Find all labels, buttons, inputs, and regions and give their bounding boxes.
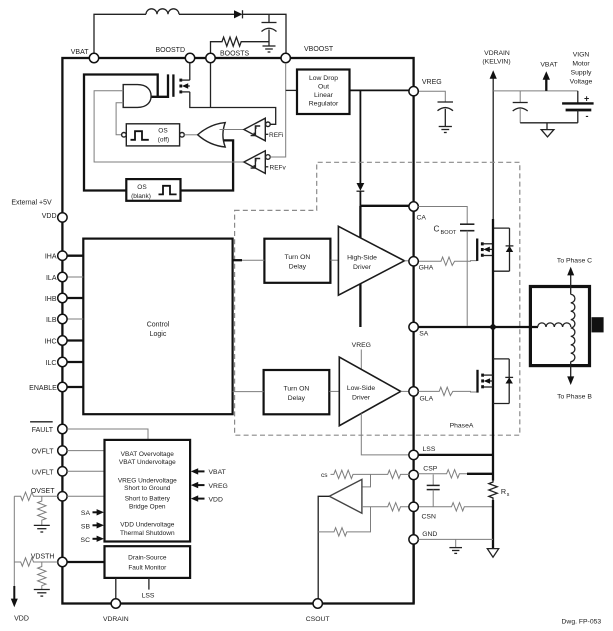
regulator LDO box (297, 70, 350, 115)
resistor R3 feedback (318, 507, 370, 536)
svg-text:Dwg. FP-053: Dwg. FP-053 (562, 619, 602, 626)
svg-text:External +5V: External +5V (11, 200, 52, 207)
svg-text:IHB: IHB (45, 296, 57, 303)
driver U5 high-side (338, 226, 404, 295)
arrow to phase B (570, 362, 572, 377)
ground supply (open triangle) (546, 123, 548, 130)
wire supply bottom (520, 122, 578, 124)
svg-text:VBAT Undervoltage: VBAT Undervoltage (119, 459, 176, 466)
wire VBAT riser (94, 14, 146, 53)
wire Rs to ground (492, 500, 494, 549)
node VDRAIN pin (111, 599, 120, 608)
svg-text:To Phase C: To Phase C (557, 258, 592, 265)
svg-text:Turn ON: Turn ON (283, 386, 309, 393)
svg-text:+: + (584, 94, 589, 104)
delay U3 box (264, 239, 330, 283)
diode D1 top (234, 10, 243, 18)
svg-text:Out: Out (318, 84, 329, 91)
wire VREG branch down (359, 90, 361, 183)
motor coil vertical (571, 294, 575, 361)
delay U4 box (264, 370, 330, 414)
node GND pin (409, 535, 418, 544)
wire supply rail top right (493, 90, 578, 92)
node UVFLT pin (58, 467, 67, 476)
wire FAULT to monitor (67, 429, 148, 440)
svg-text:OVSET: OVSET (31, 488, 55, 495)
svg-text:CSP: CSP (423, 466, 437, 473)
svg-text:VDRAIN: VDRAIN (484, 50, 510, 57)
svg-text:Logic: Logic (150, 331, 167, 338)
OR gate U2 (pointing left) (198, 123, 226, 147)
node ILA pin (58, 272, 67, 281)
svg-text:R: R (501, 487, 506, 496)
node GLA pin (409, 387, 418, 396)
svg-text:High-Side: High-Side (347, 255, 377, 262)
svg-text:LSS: LSS (142, 593, 155, 600)
svg-text:s: s (507, 492, 510, 498)
transistor Q2 high-side (476, 239, 478, 261)
svg-text:LSS: LSS (423, 446, 436, 453)
wire VBOOST to LDO (286, 89, 297, 91)
svg-text:REFv: REFv (270, 164, 287, 171)
svg-text:VDD Undervoltage: VDD Undervoltage (120, 522, 175, 529)
resistor Rs sense (489, 481, 497, 501)
wire Q1 source to BOOSTS net (190, 92, 276, 124)
transistor Q1 gate bar (172, 74, 174, 96)
node VBOOST pin (281, 53, 290, 62)
svg-text:VBAT: VBAT (209, 469, 226, 476)
wire input stubs (67, 255, 83, 257)
wire BOOSTS to REFi input bubble (266, 122, 271, 127)
wire GHA resistor to gate (418, 257, 477, 265)
IC package outline (62, 58, 413, 604)
svg-text:cs: cs (321, 472, 328, 479)
node IHB pin (58, 293, 67, 302)
wire GLA resistor to gate (418, 387, 477, 395)
svg-text:OVFLT: OVFLT (31, 449, 54, 456)
resistor R5 csp right (418, 470, 467, 478)
svg-text:Drain-Source: Drain-Source (128, 555, 167, 562)
svg-text:VBAT: VBAT (71, 49, 89, 56)
resistor R2 csp (371, 470, 410, 478)
node VBAT pin (89, 53, 98, 62)
svg-text:CSOUT: CSOUT (306, 616, 330, 623)
svg-text:VDD: VDD (42, 213, 57, 220)
svg-text:Short to Battery: Short to Battery (125, 496, 171, 503)
resistor R4 csn (362, 503, 409, 511)
svg-text:(KELVIN): (KELVIN) (482, 59, 510, 66)
ground boost cap (263, 45, 276, 47)
ground bridge (open triangle) (487, 549, 498, 558)
wire gate drive loop thick (84, 75, 158, 191)
wire op-amp out to CSOUT (318, 496, 329, 599)
svg-text:UVFLT: UVFLT (32, 469, 54, 476)
op-amp U7 sense (329, 479, 362, 513)
svg-text:Short to Ground: Short to Ground (124, 485, 171, 492)
svg-text:Motor: Motor (572, 61, 590, 68)
fault monitor box upper (105, 440, 191, 542)
wire diode to VBOOST (243, 14, 287, 53)
svg-text:Bridge Open: Bridge Open (129, 503, 166, 510)
wire delay U3 to driver (330, 259, 338, 261)
svg-text:GND: GND (422, 531, 437, 538)
capacitor C2 vreg (438, 101, 454, 103)
svg-text:BOOSTD: BOOSTD (155, 47, 185, 54)
diode D2 to CA (357, 183, 365, 191)
svg-text:SB: SB (81, 523, 91, 530)
svg-text:ILA: ILA (46, 275, 57, 282)
wire Q1 drain to BOOSTD (189, 63, 191, 80)
svg-text:-: - (586, 111, 589, 121)
wire logic to delay U4 (233, 391, 264, 393)
svg-text:VREG: VREG (352, 342, 371, 349)
svg-text:Regulator: Regulator (309, 101, 339, 108)
ground vreg cap (439, 126, 452, 128)
capacitor C3 supply (519, 91, 521, 103)
ground vdsth (34, 589, 50, 591)
node LSS pin (409, 450, 418, 459)
wire BOOSTS down (210, 63, 212, 108)
wire AND output to gate (152, 74, 169, 96)
svg-text:OS: OS (137, 184, 147, 191)
wire GND bus to bottom (412, 544, 414, 603)
svg-text:Low-Side: Low-Side (347, 385, 376, 392)
arrow VDD into monitor (196, 498, 205, 500)
svg-text:Linear: Linear (314, 92, 334, 99)
wire VBOOST to REFv input bubble (266, 155, 271, 160)
svg-text:(blank): (blank) (131, 193, 151, 200)
wire CA to CBOOT (418, 207, 467, 225)
capacitor C4 csp-csn (432, 474, 434, 485)
wire GND to bridge ground (418, 538, 493, 540)
svg-text:Control: Control (147, 322, 170, 329)
diode D4 body low-side (493, 358, 509, 360)
svg-text:VREG Undervoltage: VREG Undervoltage (118, 477, 177, 484)
driver U6 low-side (339, 357, 400, 426)
ground signal (455, 539, 457, 547)
svg-text:VREG: VREG (422, 79, 442, 86)
svg-text:PhaseA: PhaseA (450, 423, 474, 430)
resistor R9 vdsth (14, 558, 57, 566)
battery VIGN (577, 91, 579, 104)
svg-text:REFi: REFi (269, 132, 283, 139)
motor coil horizontal (538, 323, 571, 327)
wire LSS to bridge (418, 454, 493, 456)
svg-text:Supply: Supply (571, 70, 592, 77)
svg-text:FAULT: FAULT (32, 427, 54, 434)
svg-text:Driver: Driver (352, 395, 371, 402)
diode D3 body high-side (493, 227, 510, 229)
one-shot OS (blank) box (126, 179, 180, 201)
pulse glyph OS off (131, 131, 149, 140)
wire logic to delay U3 (233, 259, 242, 261)
resistor R10 vdsth divider (38, 562, 46, 590)
node GHA pin (409, 257, 418, 266)
wire VDD pulldown vertical (13, 496, 15, 586)
wire diode to CA pin (360, 205, 409, 207)
wire low-side driver to LSS (361, 413, 409, 455)
resistor R7 ovset (14, 492, 57, 500)
schmitt REFi (244, 118, 265, 141)
node SA pin (409, 322, 418, 331)
svg-text:OS: OS (158, 128, 168, 135)
arrow VBAT into monitor (196, 470, 205, 472)
node ILB pin (58, 314, 67, 323)
svg-text:Delay: Delay (288, 395, 306, 402)
ground ovset (34, 524, 50, 526)
svg-text:SA: SA (81, 510, 91, 517)
wire VREG cap (418, 91, 445, 102)
fault monitor box lower (105, 546, 191, 578)
svg-text:VDSTH: VDSTH (31, 554, 55, 561)
node VREG pin (409, 87, 418, 96)
node CA pin (409, 202, 418, 211)
svg-text:VDD: VDD (14, 616, 29, 623)
node OVFLT pin (58, 446, 67, 455)
svg-text:CA: CA (417, 215, 427, 222)
resistor R6 csn right (418, 503, 493, 511)
svg-text:Delay: Delay (289, 264, 307, 271)
transistor Q3 low-side (476, 370, 478, 393)
control logic box (83, 239, 232, 415)
node ENABLE pin (58, 382, 67, 391)
svg-text:Thermal Shutdown: Thermal Shutdown (120, 530, 175, 537)
svg-text:C: C (434, 225, 440, 234)
svg-text:BOOT: BOOT (441, 230, 457, 236)
inductor L1 top (146, 9, 179, 14)
svg-text:GLA: GLA (420, 396, 434, 403)
node IHC pin (58, 336, 67, 345)
svg-text:ILB: ILB (46, 317, 57, 324)
svg-text:BOOSTS: BOOSTS (220, 51, 250, 58)
wire monitor to VDRAIN (115, 578, 117, 599)
wire VDRAIN bus through bridge (492, 219, 494, 481)
svg-text:Low Drop: Low Drop (309, 75, 338, 82)
motor M1 (530, 287, 589, 366)
schmitt REFv (244, 151, 265, 174)
arrow VREG into monitor (196, 484, 205, 486)
svg-text:Voltage: Voltage (570, 79, 593, 86)
wire SA to motor (418, 326, 538, 328)
svg-text:VBAT: VBAT (540, 62, 557, 69)
wire OS off to OR output (184, 134, 197, 136)
node IHA pin (58, 251, 67, 260)
wire OS blank to OR input (181, 140, 234, 190)
svg-text:SC: SC (81, 537, 91, 544)
one-shot OS (off) box (126, 124, 179, 146)
svg-text:CSN: CSN (422, 514, 436, 521)
wire REFi out to OR input (220, 129, 244, 131)
svg-text:GHA: GHA (419, 265, 434, 272)
node CSOUT pin (313, 599, 322, 608)
wire cs node to op-amp (362, 474, 371, 487)
arrow VBAT supply (545, 80, 547, 91)
transistor Q1 stubs (181, 79, 190, 81)
capacitor C1 boost (268, 14, 270, 22)
svg-text:VDD: VDD (209, 496, 223, 503)
svg-text:VDRAIN: VDRAIN (103, 616, 129, 623)
svg-text:IHC: IHC (44, 339, 56, 346)
node BOOSTS pin (206, 53, 215, 62)
node OVSET pin (58, 492, 67, 501)
svg-text:IHA: IHA (45, 254, 57, 261)
node CSN pin (409, 502, 418, 511)
node ILC pin (58, 357, 67, 366)
pulse glyph OS blank (159, 186, 177, 195)
svg-text:ILC: ILC (46, 360, 57, 367)
arrow to phase C (570, 275, 572, 294)
wire inductor to diode (179, 13, 234, 15)
svg-text:VIGN: VIGN (573, 52, 590, 59)
wire monitor LSS stub (148, 578, 150, 590)
wire CA rail behind driver (to SA) (359, 206, 361, 327)
svg-text:VBOOST: VBOOST (304, 46, 334, 53)
node VDSTH pin (58, 557, 67, 566)
svg-text:SA: SA (419, 331, 429, 338)
resistor R1 boosts (211, 37, 270, 53)
resistor R8 ovset divider (38, 496, 46, 525)
node FAULT pin (58, 424, 67, 433)
svg-text:VREG: VREG (209, 483, 228, 490)
svg-text:ENABLE: ENABLE (29, 385, 57, 392)
junction SA bridge (490, 324, 496, 330)
wire delay U4 to driver (329, 390, 339, 392)
node CSP pin (409, 470, 418, 479)
node VDD pin (58, 213, 67, 222)
node BOOSTD pin (185, 53, 194, 62)
svg-text:Driver: Driver (353, 264, 372, 271)
svg-text:Turn ON: Turn ON (284, 254, 310, 261)
wire LDO to VREG pin (350, 89, 410, 91)
svg-text:(off): (off) (158, 136, 169, 143)
AND gate U1 (123, 85, 151, 108)
dashed bridge boundary (235, 162, 520, 435)
transistor Q1 channel (179, 79, 182, 82)
wire REFv feedback to AND input1 (94, 91, 244, 162)
svg-text:VBAT Overvoltage: VBAT Overvoltage (121, 451, 175, 458)
wire OS off input to AND input2 (116, 103, 123, 135)
wire VDRAIN vertical (492, 79, 494, 221)
svg-text:Fault Monitor: Fault Monitor (128, 565, 167, 572)
svg-text:To Phase B: To Phase B (557, 394, 592, 401)
